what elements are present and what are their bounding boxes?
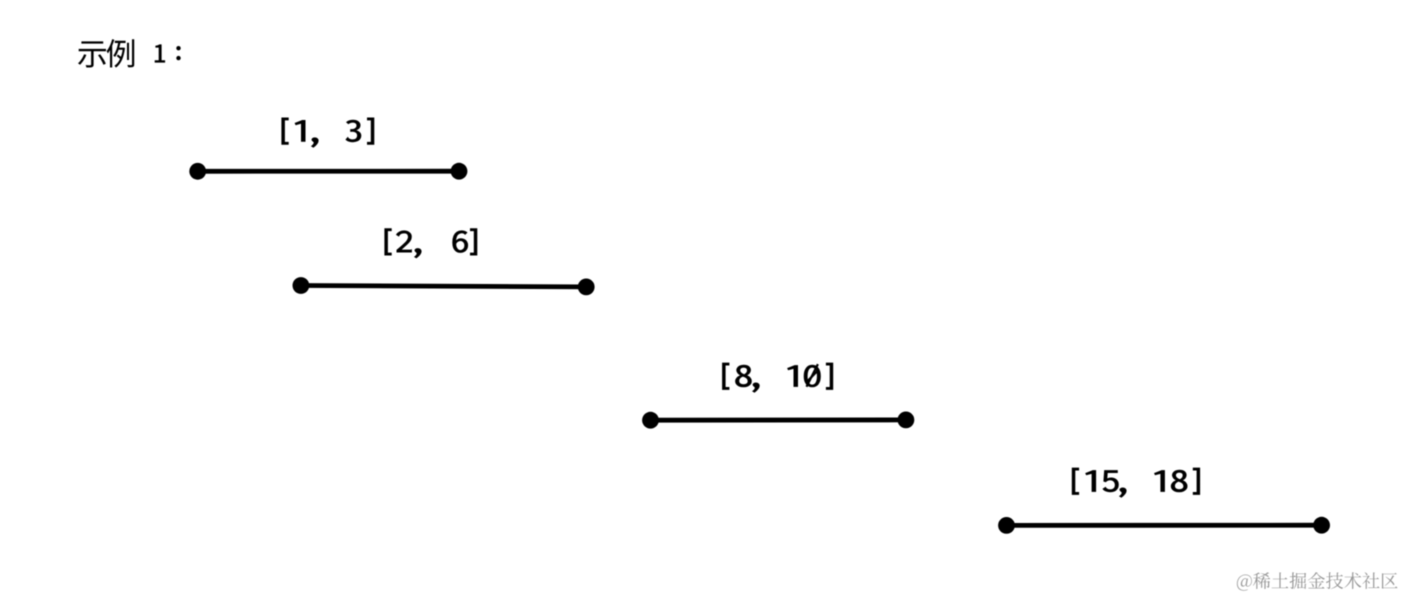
right endpoint dot of [2, 6] <box>578 279 595 296</box>
interval line [15, 18] <box>1007 523 1322 528</box>
left endpoint dot of [1, 3] <box>189 163 206 180</box>
interval label "[8, 10]" <box>722 363 833 393</box>
right endpoint dot of [8, 10] <box>898 412 915 429</box>
right endpoint dot of [15, 18] <box>1313 517 1330 534</box>
interval line [8, 10] <box>651 417 906 422</box>
right endpoint dot of [1, 3] <box>451 163 468 180</box>
interval line [1, 3] <box>198 169 459 174</box>
interval label "[2, 6]" <box>384 228 477 258</box>
left endpoint dot of [15, 18] <box>998 517 1015 534</box>
left endpoint dot of [2, 6] <box>293 277 310 294</box>
title text "示例 1:" <box>78 39 181 68</box>
left endpoint dot of [8, 10] <box>642 412 659 429</box>
interval label "[1, 3]" <box>281 118 374 148</box>
interval line [2, 6] <box>301 286 586 287</box>
watermark "@稀土掘金技术社区" <box>1237 572 1398 591</box>
interval label "[15, 18]" <box>1072 468 1200 498</box>
